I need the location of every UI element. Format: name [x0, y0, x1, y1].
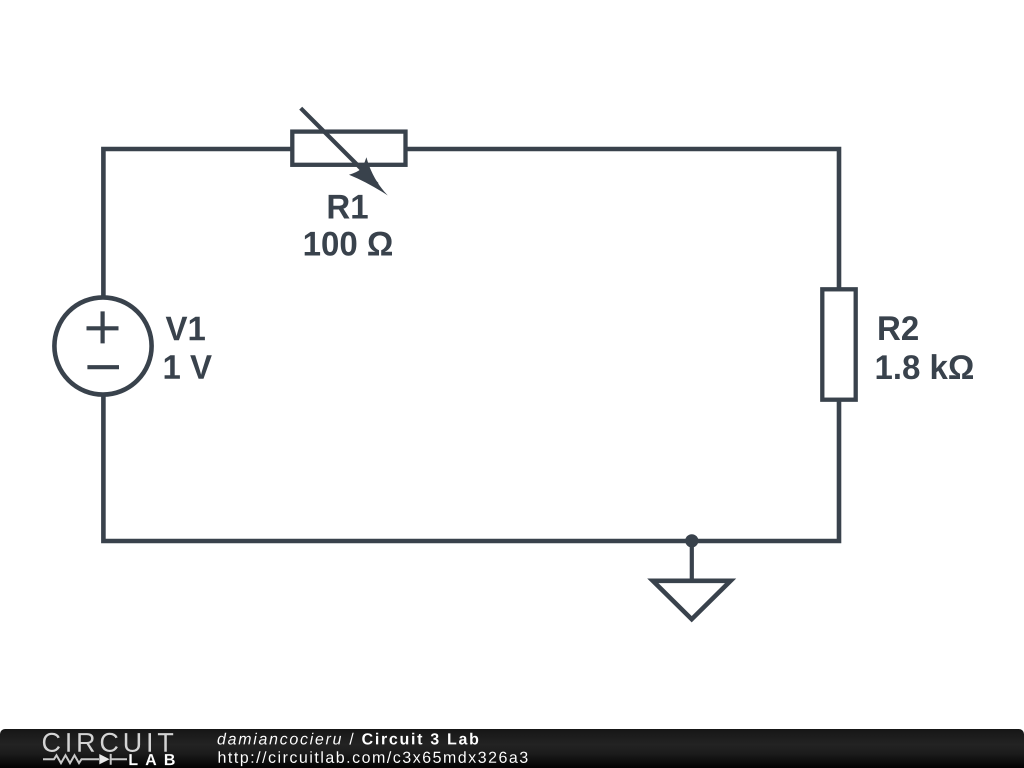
V1 minus sign	[87, 365, 119, 369]
label R2	[879, 316, 918, 340]
value label 1.8 kΩ	[877, 354, 973, 379]
ground symbol triangle	[653, 581, 731, 619]
logo word CIRCUIT	[43, 733, 173, 752]
wire: right vertical lower + bottom horizontal + left vertical lower	[103, 395, 839, 542]
value label 1 V	[165, 355, 212, 379]
resistor R1 wiper diagonal line	[301, 108, 377, 184]
logo resistor zigzag lead	[43, 755, 99, 763]
junction node dot	[685, 534, 698, 547]
label V1	[166, 317, 205, 341]
ground stub wire	[690, 541, 694, 579]
resistor R2 body	[822, 289, 855, 399]
credit line 1: damiancocieru / Circuit 3 Lab	[218, 733, 479, 745]
wire: top-right horizontal + right vertical upper	[408, 149, 840, 288]
logo diode bar and lead	[111, 754, 127, 765]
resistor R1 body	[292, 132, 405, 165]
label R1	[329, 195, 368, 219]
V1 plus sign	[87, 311, 119, 343]
logo word LAB	[129, 754, 174, 765]
wire: left vertical upper + top-left horizontal	[103, 149, 290, 297]
footer bar	[0, 729, 1024, 768]
value label 100 Ω	[305, 232, 392, 256]
resistor R1 wiper arrowhead	[349, 157, 388, 195]
logo diode triangle	[99, 754, 109, 764]
credit line 2: circuit URL	[219, 751, 528, 766]
voltage source V1 circle	[54, 297, 151, 394]
